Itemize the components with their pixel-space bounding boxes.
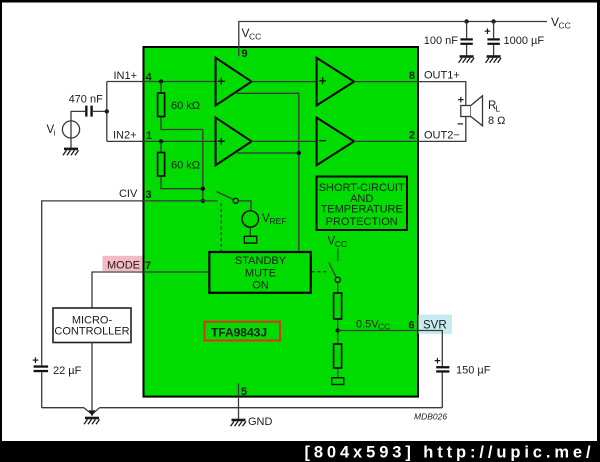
svg-text:1000 µF: 1000 µF bbox=[504, 35, 545, 47]
svg-text:i: i bbox=[54, 128, 56, 138]
svg-text:IN2+: IN2+ bbox=[113, 130, 137, 142]
svg-text:STANDBY: STANDBY bbox=[235, 255, 287, 267]
svg-text:TFA9843J: TFA9843J bbox=[211, 325, 267, 339]
svg-text:OUT2−: OUT2− bbox=[424, 130, 460, 142]
svg-text:REF: REF bbox=[270, 216, 287, 226]
svg-text:MUTE: MUTE bbox=[245, 268, 276, 280]
svg-text:CIV: CIV bbox=[119, 188, 138, 200]
svg-text:8: 8 bbox=[409, 70, 415, 82]
svg-text:9: 9 bbox=[242, 48, 248, 60]
svg-text:60 kΩ: 60 kΩ bbox=[171, 100, 200, 112]
svg-text:+: + bbox=[434, 356, 440, 368]
svg-text:MODE: MODE bbox=[107, 259, 140, 271]
svg-text:8 Ω: 8 Ω bbox=[488, 115, 505, 127]
svg-text:22 µF: 22 µF bbox=[53, 365, 82, 377]
svg-text:SVR: SVR bbox=[423, 320, 447, 332]
svg-text:IN1+: IN1+ bbox=[113, 70, 137, 82]
svg-text:MDB026: MDB026 bbox=[414, 412, 447, 422]
svg-text:150 µF: 150 µF bbox=[456, 365, 491, 377]
svg-text:−: − bbox=[457, 119, 463, 131]
svg-text:GND: GND bbox=[248, 416, 273, 428]
svg-text:CC: CC bbox=[559, 21, 571, 31]
svg-text:100 nF: 100 nF bbox=[424, 35, 459, 47]
svg-text:CC: CC bbox=[335, 239, 347, 249]
svg-text:7: 7 bbox=[145, 260, 151, 272]
svg-text:5: 5 bbox=[241, 386, 247, 398]
svg-text:60 kΩ: 60 kΩ bbox=[171, 160, 200, 172]
svg-text:L: L bbox=[496, 104, 501, 114]
svg-text:470 nF: 470 nF bbox=[69, 94, 104, 106]
svg-text:6: 6 bbox=[408, 320, 414, 332]
svg-text:CC: CC bbox=[378, 322, 390, 332]
svg-text:[804x593] http://upic.me/: [804x593] http://upic.me/ bbox=[304, 444, 594, 462]
svg-text:1: 1 bbox=[146, 130, 152, 142]
svg-text:+: + bbox=[484, 26, 490, 38]
svg-text:3: 3 bbox=[146, 189, 152, 201]
svg-text:CONTROLLER: CONTROLLER bbox=[54, 325, 129, 337]
svg-text:CC: CC bbox=[249, 32, 261, 42]
svg-text:+: + bbox=[458, 95, 464, 107]
svg-text:2: 2 bbox=[409, 130, 415, 142]
svg-text:ON: ON bbox=[252, 279, 269, 291]
svg-text:0.5V: 0.5V bbox=[356, 319, 379, 331]
svg-text:4: 4 bbox=[146, 72, 153, 84]
svg-text:PROTECTION: PROTECTION bbox=[326, 216, 398, 228]
svg-text:OUT1+: OUT1+ bbox=[424, 70, 460, 82]
svg-text:+: + bbox=[32, 355, 38, 367]
svg-text:TEMPERATURE: TEMPERATURE bbox=[321, 204, 403, 216]
